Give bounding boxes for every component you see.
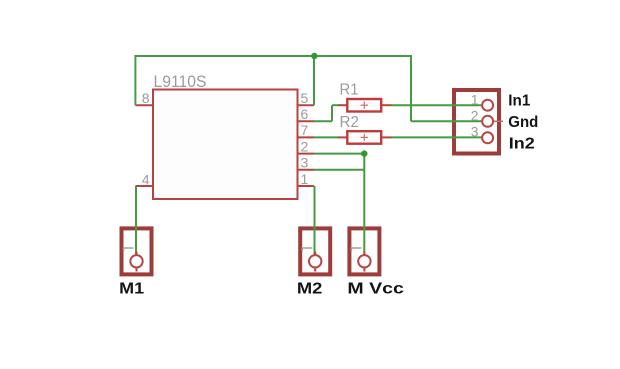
connector M2 pin stub bottom	[314, 267, 316, 271]
connector M Vcc pin stub top	[363, 252, 365, 257]
wire pin 6 jog to R1	[332, 104, 339, 106]
connector M2 pin-1 mark	[302, 248, 312, 251]
junction dot pin2/pin3 net	[361, 150, 367, 156]
connector JP1 pad circle 3	[482, 132, 493, 143]
resistor R2	[338, 131, 392, 144]
connector M2 box	[300, 228, 330, 274]
svg-text:4: 4	[142, 172, 150, 188]
wire vertical to M Vcc	[363, 154, 365, 256]
connector M1 box	[122, 228, 152, 274]
svg-text:3: 3	[471, 124, 479, 140]
wire pin 1 vertical to M2	[314, 186, 316, 256]
connector M Vcc pad circle	[358, 255, 370, 267]
wire pin 6 jog vertical	[331, 105, 333, 121]
connector M2 pin stub top	[314, 252, 316, 257]
wire pin 3 row	[314, 169, 364, 171]
svg-text:7: 7	[301, 122, 309, 138]
connector M1 pad circle	[130, 255, 142, 267]
connector JP1 pin 2 tail	[488, 120, 503, 122]
connector JP1 pad circle 2	[482, 116, 493, 127]
svg-text:2: 2	[471, 108, 479, 124]
wire pin 4 vertical to M1	[135, 186, 137, 256]
svg-text:Gnd: Gnd	[508, 114, 538, 131]
pin 2 stub	[298, 153, 315, 155]
svg-text:5: 5	[301, 90, 309, 106]
connector JP1 pad circle 1	[482, 100, 493, 111]
junction dot at top rail	[311, 53, 317, 59]
connector M1 pin-1 mark	[124, 248, 134, 251]
op-amp U1 body (IC L9110S)	[153, 90, 298, 200]
pin 7 stub	[298, 136, 315, 138]
wire R2 right to connector pin 3	[392, 136, 484, 138]
resistor R1	[338, 99, 392, 112]
connector M Vcc pin-1 mark	[351, 248, 361, 251]
wire left vertical to pin 8	[134, 55, 136, 105]
pin 5 stub	[298, 104, 315, 106]
wire vertical junction to pin 5	[313, 56, 315, 105]
svg-text:In1: In1	[508, 92, 530, 109]
connector M2 pad circle	[309, 255, 321, 267]
connector M1 pin stub top	[136, 252, 138, 257]
connector JP1 box	[454, 90, 499, 154]
svg-text:L9110S: L9110S	[154, 72, 207, 91]
wire R1 right to connector pin 1	[392, 104, 484, 106]
wire pin 2 row	[314, 153, 364, 155]
wire pin 6 jog horizontal	[314, 120, 332, 122]
wire right vertical to Gnd row	[410, 55, 412, 121]
pin 1 stub	[298, 185, 315, 187]
svg-text:6: 6	[301, 106, 309, 122]
svg-text:M Vcc: M Vcc	[347, 280, 404, 297]
connector M Vcc box	[349, 228, 379, 274]
svg-text:In2: In2	[509, 135, 535, 152]
svg-text:M1: M1	[119, 280, 144, 297]
connector M Vcc pin stub bottom	[363, 267, 365, 271]
svg-text:R1: R1	[340, 82, 359, 99]
pin 8 stub	[135, 104, 153, 106]
wire pin 7 to R2	[314, 136, 339, 138]
connector M1 pin stub bottom	[136, 267, 138, 271]
pin 6 stub	[298, 120, 315, 122]
pin 4 stub	[135, 185, 153, 187]
wire Gnd row to connector pin 2	[411, 120, 483, 122]
wire GND top rail	[135, 55, 411, 57]
pin 3 stub	[298, 169, 315, 171]
svg-text:2: 2	[301, 138, 309, 154]
svg-text:1: 1	[471, 91, 479, 107]
svg-text:3: 3	[301, 155, 309, 171]
svg-text:M2: M2	[297, 280, 323, 297]
svg-text:8: 8	[142, 90, 150, 106]
svg-text:R2: R2	[340, 114, 360, 131]
svg-text:1: 1	[301, 171, 309, 187]
